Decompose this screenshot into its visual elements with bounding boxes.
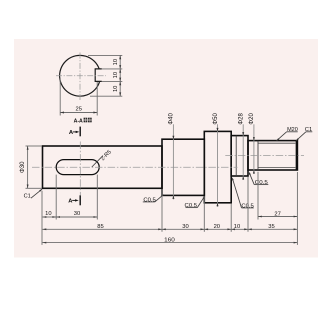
thread end face thick edge xyxy=(295,141,297,170)
dimension Φ30 extension lines xyxy=(26,146,42,188)
diameter label Φ50 with leader xyxy=(213,113,219,207)
dimension 20 text xyxy=(214,224,220,230)
thread minor diameter line (bottom) xyxy=(258,166,295,168)
dimension 27 text xyxy=(274,212,280,218)
dimension text 10 (top segment) xyxy=(113,59,119,65)
dimension 10 text xyxy=(45,211,51,217)
svg-text:10: 10 xyxy=(45,211,51,217)
chamfer label C1 (thread end) with leader xyxy=(296,127,313,141)
shaft section Φ20 threaded end outline xyxy=(248,141,297,170)
dimension 25 extension lines xyxy=(60,78,97,116)
dimension 30 (Φ40 length) line xyxy=(162,228,204,230)
section circle vertical centerline xyxy=(79,53,81,101)
centerline of right portion xyxy=(225,155,304,157)
diameter label Φ28 with leader xyxy=(239,113,245,180)
svg-text:A-A: A-A xyxy=(74,118,83,124)
dimension 85 line xyxy=(43,228,163,230)
extension line from Φ28/Φ20 step xyxy=(247,177,249,232)
svg-text:C0.5: C0.5 xyxy=(255,180,268,186)
svg-text:Φ28: Φ28 xyxy=(239,113,245,125)
svg-text:10: 10 xyxy=(113,59,119,65)
dimension 10 (Φ28 length) line xyxy=(231,228,248,230)
extension line from slot right xyxy=(96,175,98,220)
dimension 10 text (Φ28 length) xyxy=(234,224,240,230)
vertical chained dimension line 10/10/10 xyxy=(119,55,121,96)
dimension 30 text (Φ40 length) xyxy=(182,224,188,230)
thread label M20 with leader xyxy=(276,127,298,141)
keyway dim extension lines (right of section) xyxy=(88,55,122,96)
pink drawing sheet background xyxy=(14,39,318,258)
label A-A断面 (section title) xyxy=(74,118,92,125)
dimension 160 text xyxy=(164,238,175,244)
dimension 10 (slot offset) line xyxy=(43,216,57,218)
section A-A keyway notch xyxy=(95,69,102,82)
svg-text:Φ20: Φ20 xyxy=(249,113,255,125)
dimension text Φ30 xyxy=(20,161,26,173)
svg-text:25: 25 xyxy=(75,107,81,113)
svg-text:20: 20 xyxy=(214,224,220,230)
chamfer label C0.5 (Φ50/Φ28 step) xyxy=(232,177,254,209)
extension line from shaft left edge xyxy=(41,191,43,245)
svg-text:C0.5: C0.5 xyxy=(143,197,156,203)
extension line from Φ50/Φ28 step xyxy=(230,204,232,232)
cutting plane mark A (upper) xyxy=(69,127,80,137)
dimension 30 text xyxy=(74,211,80,217)
section circle horizontal centerline xyxy=(56,75,106,77)
dimension 25 text xyxy=(75,107,81,113)
extension line from Φ40/Φ50 step xyxy=(203,196,205,231)
thread minor diameter line (top) xyxy=(258,142,295,144)
inner edge line in Φ28 section xyxy=(235,136,237,176)
shaft section Φ50 outline xyxy=(204,131,231,202)
shaft section Φ30 outline xyxy=(43,146,163,188)
extension line from thread runout xyxy=(257,172,259,220)
svg-text:Φ30: Φ30 xyxy=(20,161,26,173)
dimension 85 text xyxy=(97,224,103,230)
section A-A circle (shaft Φ30 cross-section) xyxy=(60,55,100,96)
svg-text:30: 30 xyxy=(182,224,188,230)
dimension 35 text xyxy=(268,224,274,230)
svg-text:27: 27 xyxy=(274,212,280,218)
dimension 20 (Φ50 length) line xyxy=(204,228,231,230)
main centerline (left portion) xyxy=(32,166,238,168)
chamfer label C0.5 (Φ30/Φ40 step) xyxy=(143,194,164,203)
keyway radius label 2-R5 with leader xyxy=(92,149,113,167)
extension line from slot left xyxy=(55,175,57,220)
chamfer label C0.5 (Φ28/Φ20 step) xyxy=(249,172,268,186)
dimension text 10 (bottom segment) xyxy=(113,86,119,92)
extension line from Φ30/Φ40 step xyxy=(161,189,163,232)
extension line from shaft right end xyxy=(296,172,298,245)
section line A-A through keyway xyxy=(79,142,81,196)
svg-text:C0.5: C0.5 xyxy=(185,203,198,209)
dimension 27 line xyxy=(258,216,297,218)
diameter label Φ20 with leader xyxy=(249,113,255,174)
chamfer label C1 (left end) xyxy=(24,189,43,200)
shaft section Φ40 outline xyxy=(162,139,204,195)
dimension text 10 (middle segment) xyxy=(113,72,119,78)
dimension 25 line with arrows xyxy=(60,112,97,114)
dimension 160 overall line xyxy=(43,242,298,244)
svg-text:Φ40: Φ40 xyxy=(169,113,175,125)
svg-text:Φ50: Φ50 xyxy=(213,113,219,125)
svg-text:85: 85 xyxy=(97,224,103,230)
dimension Φ30 line with arrows xyxy=(27,146,29,188)
svg-text:35: 35 xyxy=(268,224,274,230)
svg-text:C1: C1 xyxy=(24,194,31,200)
svg-text:10: 10 xyxy=(234,224,240,230)
diameter label Φ40 with leader xyxy=(169,113,175,200)
thread runout line xyxy=(257,141,259,170)
keyway slot (stadium shape) xyxy=(56,160,99,175)
shaft section Φ28 outline xyxy=(231,136,248,176)
dimension 35 (thread section) line xyxy=(248,228,297,230)
svg-text:10: 10 xyxy=(113,86,119,92)
svg-text:10: 10 xyxy=(113,72,119,78)
svg-text:30: 30 xyxy=(74,211,80,217)
svg-text:160: 160 xyxy=(164,238,175,244)
dimension 30 (slot length) line xyxy=(56,216,97,218)
chamfer label C0.5 (Φ40/Φ50 step) xyxy=(185,196,205,209)
cutting plane mark A (lower) xyxy=(68,195,80,205)
